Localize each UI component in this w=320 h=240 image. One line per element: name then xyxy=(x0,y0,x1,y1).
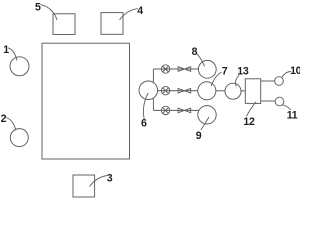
outlet circle 11 xyxy=(275,97,284,106)
svg-text:12: 12 xyxy=(243,116,255,128)
bowtie valve bottom xyxy=(178,108,191,113)
pump circle 6 xyxy=(139,81,158,100)
leader line 4 xyxy=(120,9,138,20)
pipe from separator 12 to outlet 10 xyxy=(261,80,275,82)
svg-text:2: 2 xyxy=(1,113,7,125)
pipe middle branch xyxy=(148,90,245,92)
circle 2 xyxy=(10,129,28,147)
vessel circle 7 xyxy=(198,82,216,100)
svg-text:4: 4 xyxy=(137,5,143,17)
pump circle 13 xyxy=(225,83,241,99)
vessel circle 9 xyxy=(198,106,216,124)
svg-text:7: 7 xyxy=(222,66,228,78)
pipe bottom branch xyxy=(153,109,207,111)
leader line 1 xyxy=(8,48,17,61)
svg-text:11: 11 xyxy=(287,109,298,121)
bowtie valve top xyxy=(178,67,191,72)
svg-text:1: 1 xyxy=(3,44,9,56)
vessel circle 8 xyxy=(198,60,216,78)
outlet circle 10 xyxy=(275,77,284,86)
bowtie valve middle xyxy=(178,88,191,93)
pipe top branch xyxy=(153,68,207,70)
circle 1 xyxy=(10,57,29,76)
svg-text:3: 3 xyxy=(107,173,113,185)
svg-text:10: 10 xyxy=(290,65,300,77)
leader line 12 xyxy=(247,102,257,117)
leader line 11 xyxy=(282,105,290,110)
separator box 12 xyxy=(245,79,260,104)
leader line 10 xyxy=(282,71,291,77)
leader line 8 xyxy=(196,54,204,67)
valve V2 middle (circle with cross) xyxy=(161,87,169,95)
valve V1 top (circle with cross) xyxy=(161,65,169,73)
leader line 9 xyxy=(201,117,209,130)
main process box xyxy=(42,43,130,159)
leader line 3 xyxy=(90,176,107,187)
manifold vertical line xyxy=(152,69,154,110)
svg-text:13: 13 xyxy=(237,65,249,77)
leader line 7 xyxy=(211,72,221,86)
leader line 5 xyxy=(41,5,58,20)
leader line 6 xyxy=(143,93,148,119)
box 5 xyxy=(53,14,75,35)
leader line 2 xyxy=(6,118,16,131)
valve V3 bottom (circle with cross) xyxy=(161,106,169,114)
box 4 xyxy=(101,13,123,35)
svg-text:6: 6 xyxy=(141,117,147,129)
svg-text:9: 9 xyxy=(196,130,202,142)
svg-text:8: 8 xyxy=(192,46,198,58)
box 3 xyxy=(73,175,95,197)
leader line 13 xyxy=(236,75,240,86)
svg-text:5: 5 xyxy=(35,2,41,14)
pipe from separator 12 to outlet 11 xyxy=(261,100,275,102)
